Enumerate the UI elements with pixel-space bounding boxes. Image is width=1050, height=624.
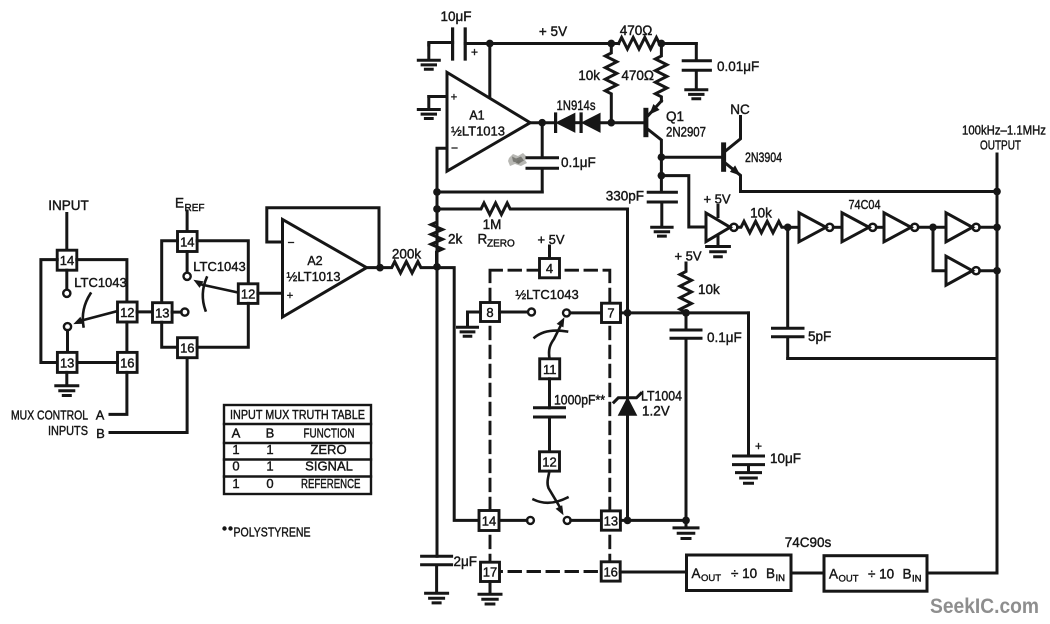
svg-text:+: + (287, 290, 293, 302)
node (433, 188, 441, 196)
svg-text:IN: IN (912, 574, 922, 585)
capacitor 0.1uF on A1 (527, 123, 596, 192)
svg-text:−: − (287, 235, 294, 249)
capacitor 1000pF polystyrene (535, 393, 606, 452)
wire (186, 211, 189, 232)
wire ground pin8 (468, 312, 481, 327)
inverter U3d (884, 213, 918, 242)
svg-text:13: 13 (60, 355, 74, 370)
svg-text:MUX CONTROL: MUX CONTROL (11, 408, 88, 423)
svg-text:11: 11 (543, 362, 557, 377)
svg-text:A: A (96, 408, 105, 423)
wire 12-16 mux2 (197, 303, 248, 347)
svg-text:+ 5V: + 5V (674, 249, 701, 264)
svg-text:1.2V: 1.2V (642, 404, 670, 419)
wire Q2 emitter to output rail (741, 190, 998, 193)
pin box 13 mux1 (57, 352, 77, 372)
switch contact (527, 517, 534, 524)
svg-text:4: 4 (546, 261, 553, 276)
wire 5pF to output column (788, 357, 997, 360)
pin box 14 mux2 (178, 232, 198, 252)
svg-text:1000pF**: 1000pF** (554, 393, 606, 408)
svg-text:7: 7 (607, 306, 614, 321)
svg-text:5pF: 5pF (808, 329, 831, 344)
svg-text:IN: IN (776, 573, 786, 584)
svg-text:ZERO: ZERO (487, 239, 515, 250)
resistor 2k (431, 209, 463, 267)
svg-text:INPUTS: INPUTS (48, 423, 88, 438)
op-amp A2 1/2LT1013 (283, 220, 367, 318)
diode D1 1N914 (556, 114, 575, 132)
wire 12-16 mux1 (125, 322, 128, 352)
svg-text:½LTC1043: ½LTC1043 (515, 287, 578, 302)
ground (707, 236, 730, 257)
wire 13 to contact (172, 311, 181, 314)
capacitor 330pF (606, 176, 677, 227)
svg-text:330pF: 330pF (606, 189, 644, 204)
wire B control (110, 358, 187, 433)
ground (674, 520, 698, 538)
label output (962, 123, 1046, 153)
ground (458, 327, 478, 336)
node (658, 153, 666, 161)
svg-text:74C90s: 74C90s (785, 535, 832, 550)
switch contact (64, 323, 71, 330)
svg-text:14: 14 (180, 235, 194, 250)
svg-text:ZERO: ZERO (310, 442, 346, 457)
svg-text:0.1μF: 0.1μF (561, 155, 596, 170)
svg-text:FUNCTION: FUNCTION (304, 426, 355, 441)
ground (418, 97, 439, 119)
svg-text:B: B (903, 567, 912, 582)
wire (659, 42, 696, 45)
wire (186, 252, 189, 273)
svg-text:Q1: Q1 (666, 109, 684, 124)
svg-text:A2: A2 (307, 254, 322, 268)
svg-text:16: 16 (120, 355, 134, 370)
smudge artifact (508, 153, 527, 166)
capacitor 2uF (422, 554, 477, 593)
node (376, 264, 384, 272)
svg-text:+ 5V: + 5V (539, 24, 567, 39)
node (624, 309, 632, 317)
svg-text:1N914s: 1N914s (557, 98, 596, 113)
svg-text:E: E (175, 196, 184, 211)
svg-text:2μF: 2μF (454, 554, 478, 569)
wire mux2 left loop (162, 241, 178, 303)
transistor Q2 2N3904 (724, 117, 783, 192)
wire 200k node down-jog (437, 268, 479, 521)
svg-text:10μF: 10μF (770, 451, 801, 466)
svg-text:14: 14 (482, 514, 496, 529)
dashed box 1/2LTC1043 (490, 270, 610, 571)
switch arm mux2 (193, 278, 238, 311)
svg-text:+ 5V: + 5V (537, 232, 564, 247)
zener LT1004 1.2V (614, 313, 683, 521)
svg-text:0: 0 (266, 476, 273, 491)
wire Q1 to Q2 base (661, 157, 723, 175)
node (433, 263, 441, 271)
svg-text:12: 12 (542, 454, 556, 469)
svg-text:NC: NC (730, 102, 750, 117)
capacitor 0.01uF (683, 44, 759, 90)
wire (788, 226, 799, 229)
pin box 16 mux1 (118, 352, 138, 372)
node (486, 40, 494, 48)
svg-text:R: R (478, 232, 488, 247)
svg-text:+: + (451, 92, 457, 104)
svg-text:÷ 10: ÷ 10 (868, 567, 894, 582)
pin box 11 (540, 359, 560, 379)
node (682, 309, 690, 317)
wire node7 rail (621, 311, 749, 314)
svg-text:REFERENCE: REFERENCE (301, 476, 361, 491)
svg-text:10k: 10k (750, 206, 772, 221)
wire output column (927, 154, 997, 573)
svg-text:0.01μF: 0.01μF (717, 59, 759, 74)
svg-text:1: 1 (232, 442, 239, 457)
pin box 12 (540, 452, 560, 471)
inverter U3a buffer (703, 192, 737, 242)
svg-text:17: 17 (483, 565, 497, 580)
svg-text:OUTPUT: OUTPUT (980, 138, 1021, 153)
wire (65, 214, 68, 251)
resistor 10k horizontal (738, 206, 788, 233)
label MUX CONTROL INPUTS (11, 408, 105, 442)
diode D2 1N914 (575, 114, 600, 132)
svg-text:A: A (232, 426, 241, 441)
pin box 13 central (601, 511, 620, 530)
ground (56, 372, 78, 395)
svg-text:OUT: OUT (839, 574, 859, 585)
svg-text:+: + (471, 45, 478, 59)
ground (426, 593, 448, 603)
note polystyrene (222, 525, 310, 540)
svg-text:16: 16 (180, 341, 194, 356)
svg-text:12: 12 (120, 305, 134, 320)
wire diode to Q1 base (600, 121, 644, 124)
wire (548, 246, 551, 259)
svg-text:16: 16 (603, 564, 617, 579)
ground (418, 44, 439, 70)
svg-text:½LT1013: ½LT1013 (287, 269, 341, 284)
wire mux2 top right (197, 241, 248, 284)
node (607, 119, 615, 127)
switch contact (63, 290, 70, 297)
divider U5 74C90 (824, 556, 927, 592)
node (993, 188, 1001, 196)
pin box 16 (601, 562, 620, 581)
svg-text:1M: 1M (483, 217, 502, 232)
svg-text:0.1μF: 0.1μF (707, 330, 742, 345)
svg-text:÷ 10: ÷ 10 (731, 566, 757, 581)
switch contact (184, 273, 191, 280)
node (658, 40, 666, 48)
resistor 10k vertical mid (680, 263, 720, 313)
wire mux1 top right (77, 260, 127, 302)
node (682, 517, 690, 525)
svg-text:1: 1 (266, 442, 273, 457)
wire mux1 left loop (41, 260, 58, 363)
ground (479, 582, 501, 605)
node (658, 172, 666, 180)
wire to 2uF (436, 267, 439, 557)
wire (429, 43, 453, 46)
switch contact (528, 309, 535, 316)
wire A1 plus input (429, 95, 447, 98)
svg-text:B: B (96, 426, 105, 441)
pin box 13 mux2 (153, 303, 173, 323)
svg-text:100kHz–1.1MHz: 100kHz–1.1MHz (962, 123, 1046, 138)
resistor 1M RZERO (437, 203, 628, 250)
op-amp A1 1/2LT1013 (447, 72, 530, 171)
svg-text:SeekIC.com: SeekIC.com (930, 594, 1039, 618)
inverter U3b (799, 213, 833, 242)
svg-text:13: 13 (604, 513, 618, 528)
inverter U3f (946, 256, 997, 285)
svg-text:470Ω: 470Ω (620, 23, 653, 38)
switch contact (181, 309, 188, 316)
wire to buffer input (661, 176, 706, 227)
wire divider link (791, 572, 824, 575)
wire pin13 to ground node (620, 519, 686, 522)
svg-text:OUT: OUT (701, 573, 721, 584)
svg-text:10k: 10k (698, 282, 720, 297)
wire pin16 to divider (620, 571, 686, 574)
svg-text:2N2907: 2N2907 (666, 125, 706, 140)
vertical RZERO link (626, 209, 629, 313)
wire A control (110, 372, 127, 414)
node (993, 223, 1001, 231)
ground (652, 227, 672, 236)
svg-text:0: 0 (232, 459, 239, 474)
wire A1 V+ (488, 44, 491, 97)
svg-text:+ 5V: + 5V (703, 192, 730, 207)
pin box 7 (602, 303, 621, 322)
wire mux1 12 to mux2 13 (137, 310, 152, 313)
svg-text:INPUT MUX TRUTH TABLE: INPUT MUX TRUTH TABLE (230, 407, 365, 422)
ground (737, 473, 761, 484)
node (993, 267, 1001, 275)
wire mux2 bottom loop (162, 322, 178, 347)
svg-text:74C04: 74C04 (849, 197, 881, 212)
switch arm top (535, 317, 568, 359)
wire mux1 13 to 16 (77, 361, 118, 364)
wire (548, 379, 551, 408)
svg-text:1: 1 (266, 459, 273, 474)
wire +5V rail (465, 42, 618, 45)
svg-text:−: − (451, 141, 458, 155)
svg-text:8: 8 (486, 305, 493, 320)
node (929, 223, 937, 231)
pin box 17 (481, 562, 500, 581)
svg-text:2N3904: 2N3904 (745, 150, 782, 165)
capacitor 10uF (440, 9, 478, 59)
svg-text:POLYSTYRENE: POLYSTYRENE (234, 525, 311, 540)
svg-text:10μF: 10μF (440, 9, 471, 24)
node (433, 205, 441, 213)
svg-text:A: A (692, 566, 701, 581)
wire (66, 330, 69, 352)
svg-text:14: 14 (60, 253, 74, 268)
svg-text:B: B (766, 566, 775, 581)
resistor 200k (367, 247, 437, 274)
node (538, 119, 546, 127)
divider U4 74C90 (687, 555, 792, 591)
svg-text:SIGNAL: SIGNAL (305, 459, 353, 474)
capacitor 10uF tantalum (734, 313, 802, 472)
wire (499, 519, 601, 522)
svg-text:LT1004: LT1004 (641, 389, 682, 404)
svg-text:+: + (755, 439, 762, 453)
wire contact to pin7 (570, 311, 602, 314)
pin box 12 mux2 (238, 284, 258, 304)
svg-text:INPUT: INPUT (48, 198, 89, 213)
svg-text:2k: 2k (448, 232, 463, 247)
svg-text:B: B (266, 426, 275, 441)
pin box 16 mux2 (178, 338, 198, 358)
inverter U3e (946, 213, 997, 242)
pin box 12 mux1 (118, 302, 138, 322)
pin box 14 mux1 (57, 250, 77, 270)
svg-text:470Ω: 470Ω (621, 68, 654, 83)
inverter U3c (842, 213, 876, 242)
wire (65, 270, 68, 289)
resistor 470ohm vertical (621, 44, 667, 102)
svg-text:LTC1043: LTC1043 (193, 259, 246, 274)
resistor 470ohm top (619, 23, 660, 49)
wire (918, 227, 946, 270)
svg-text:10k: 10k (578, 68, 600, 83)
capacitor 0.1uF mid (671, 313, 742, 521)
wire (833, 226, 842, 229)
wire feedback bottom (437, 191, 542, 194)
pin box 4 (540, 259, 560, 278)
wire A1 output (530, 121, 555, 124)
svg-text:½LT1013: ½LT1013 (451, 124, 505, 139)
switch contact (564, 517, 571, 524)
node (607, 40, 615, 48)
truth table (224, 405, 371, 494)
wire 12 mux2 to A2 (258, 292, 283, 295)
pin box 8 (481, 303, 500, 322)
switch contact (563, 309, 570, 316)
svg-text:A1: A1 (469, 109, 484, 123)
label EREF (175, 196, 205, 215)
pin box 14 central (479, 511, 499, 531)
wire A2 feedback (267, 208, 379, 268)
resistor 10k vertical (578, 44, 617, 123)
node (624, 517, 632, 525)
capacitor 5pF (773, 227, 832, 358)
wire (876, 226, 884, 229)
svg-text:A: A (829, 567, 838, 582)
node (784, 223, 792, 231)
svg-text:LTC1043: LTC1043 (74, 275, 127, 290)
wire A1 minus input (437, 148, 447, 267)
ground (686, 90, 707, 99)
wire pin8 to contact (500, 311, 528, 314)
svg-text:13: 13 (155, 305, 169, 320)
svg-text:1: 1 (232, 476, 239, 491)
transistor Q1 2N2907 (646, 101, 706, 157)
svg-text:12: 12 (241, 286, 255, 301)
svg-text:200k: 200k (392, 247, 422, 262)
switch arm mux1 (73, 294, 116, 327)
switch arm bottom (534, 471, 568, 515)
